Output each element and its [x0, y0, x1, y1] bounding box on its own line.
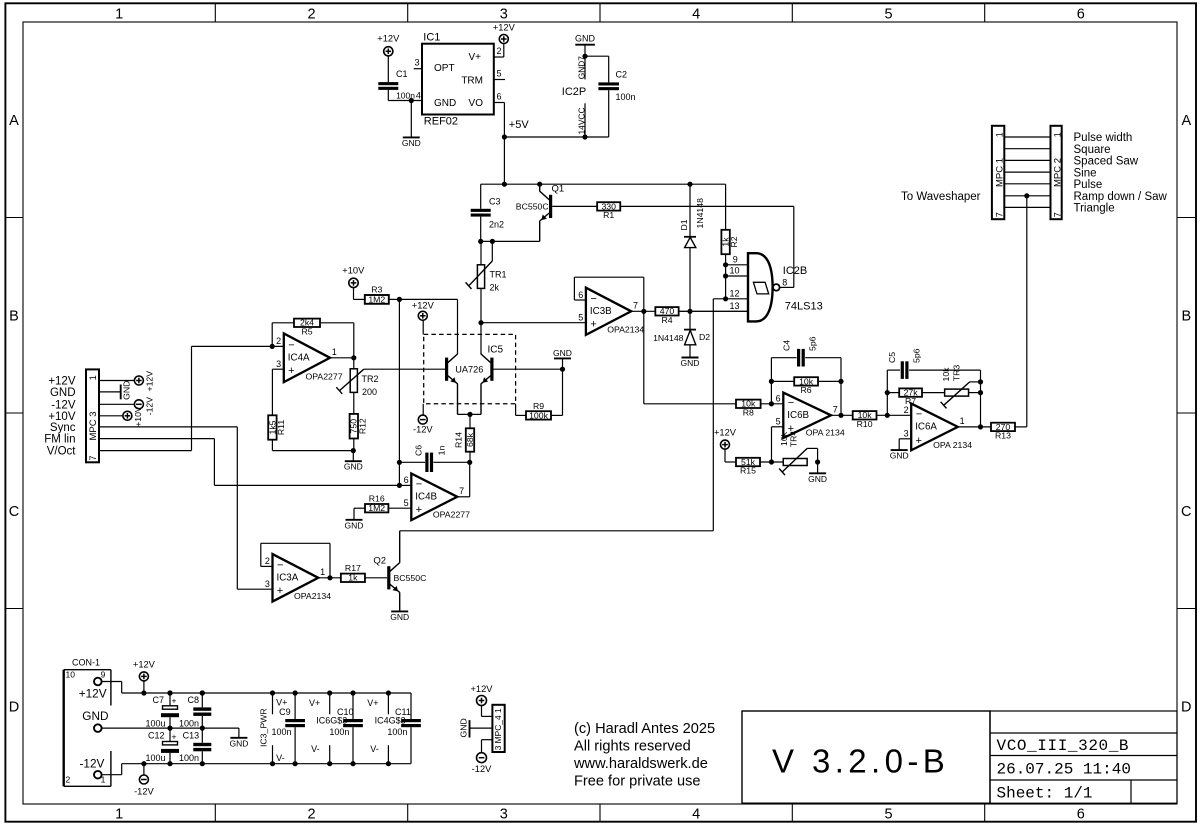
svg-text:−: −: [590, 293, 596, 305]
svg-text:1n: 1n: [437, 446, 447, 456]
svg-text:Sine: Sine: [1074, 167, 1097, 179]
svg-text:A: A: [1181, 113, 1191, 129]
svg-text:1k: 1k: [348, 573, 358, 583]
svg-text:To Waveshaper: To Waveshaper: [901, 191, 981, 203]
svg-text:C8: C8: [188, 695, 200, 705]
svg-text:R5: R5: [301, 326, 312, 336]
svg-text:Free for private use: Free for private use: [574, 774, 701, 790]
svg-text:IC4G$3: IC4G$3: [375, 716, 406, 726]
svg-text:OPA 2134: OPA 2134: [806, 428, 845, 438]
svg-text:1: 1: [1052, 132, 1062, 137]
svg-text:3: 3: [414, 58, 419, 68]
svg-text:R10: R10: [857, 419, 873, 429]
svg-text:C12: C12: [148, 731, 165, 741]
svg-text:OPA2277: OPA2277: [306, 372, 343, 382]
svg-text:10: 10: [729, 266, 739, 276]
svg-text:+12V: +12V: [493, 23, 516, 33]
svg-text:1: 1: [115, 6, 123, 22]
svg-text:C: C: [1181, 504, 1191, 520]
svg-text:UA726: UA726: [455, 365, 483, 375]
svg-text:−: −: [916, 408, 922, 420]
svg-text:C13: C13: [183, 731, 200, 741]
svg-text:C3: C3: [489, 197, 501, 207]
svg-text:14VCC: 14VCC: [576, 108, 586, 135]
svg-text:1N4148: 1N4148: [653, 333, 684, 343]
svg-text:R17: R17: [345, 563, 361, 573]
svg-text:V+: V+: [468, 52, 481, 63]
svg-text:V+: V+: [309, 698, 320, 708]
svg-text:1: 1: [115, 807, 123, 823]
svg-text:V+: V+: [276, 697, 287, 707]
svg-text:Q2: Q2: [373, 556, 386, 567]
svg-text:-12V: -12V: [51, 399, 76, 411]
svg-text:-12V: -12V: [413, 424, 433, 434]
svg-text:BC550C: BC550C: [394, 573, 427, 583]
svg-text:1M2: 1M2: [368, 503, 385, 513]
svg-text:OPA2134: OPA2134: [607, 324, 644, 334]
svg-text:−: −: [277, 559, 283, 571]
svg-text:200: 200: [362, 387, 377, 397]
svg-text:R8: R8: [743, 407, 754, 417]
svg-text:-12V: -12V: [80, 756, 105, 770]
svg-text:74LS13: 74LS13: [785, 301, 823, 313]
svg-text:+12V: +12V: [48, 376, 76, 388]
svg-text:+12V: +12V: [133, 659, 156, 669]
svg-text:13: 13: [729, 301, 739, 311]
svg-text:TR1: TR1: [490, 270, 507, 280]
svg-text:IC4A: IC4A: [288, 353, 310, 364]
svg-text:−: −: [288, 339, 294, 351]
svg-text:OPA 2134: OPA 2134: [933, 440, 972, 450]
svg-text:+: +: [172, 731, 177, 741]
svg-text:GND: GND: [344, 462, 363, 472]
svg-text:100n: 100n: [616, 92, 636, 102]
svg-text:TR3: TR3: [952, 365, 962, 382]
svg-text:C7: C7: [153, 695, 165, 705]
svg-text:8: 8: [782, 278, 787, 288]
svg-text:MPC 2: MPC 2: [1052, 158, 1063, 187]
svg-text:Sync: Sync: [50, 422, 76, 434]
svg-text:GND: GND: [575, 33, 596, 43]
svg-text:Ramp down / Saw: Ramp down / Saw: [1074, 191, 1168, 203]
svg-text:Spaced Saw: Spaced Saw: [1074, 156, 1139, 168]
svg-text:+12V: +12V: [79, 686, 107, 700]
svg-text:2: 2: [307, 6, 315, 22]
svg-text:+12V: +12V: [471, 684, 494, 694]
svg-text:V-: V-: [370, 744, 379, 754]
svg-text:BC550C: BC550C: [516, 201, 549, 211]
svg-text:C: C: [9, 504, 19, 520]
svg-text:-12V: -12V: [472, 764, 492, 774]
svg-text:26.07.25 11:40: 26.07.25 11:40: [997, 761, 1131, 779]
svg-text:IC4B: IC4B: [415, 492, 437, 503]
svg-text:R4: R4: [661, 315, 672, 325]
svg-text:5p6: 5p6: [912, 348, 922, 363]
svg-text:Pulse width: Pulse width: [1074, 132, 1133, 144]
svg-text:7: 7: [994, 212, 1004, 217]
svg-text:GND: GND: [50, 387, 76, 399]
svg-text:+12V: +12V: [412, 301, 435, 311]
svg-text:R14: R14: [453, 432, 463, 448]
svg-text:IC2B: IC2B: [783, 265, 807, 277]
svg-text:TR2: TR2: [362, 374, 379, 384]
svg-text:R2: R2: [729, 236, 739, 247]
svg-text:IC6A: IC6A: [915, 422, 937, 433]
svg-text:+: +: [277, 585, 283, 597]
svg-text:C6: C6: [414, 445, 424, 456]
svg-text:5: 5: [884, 6, 892, 22]
svg-text:IC3_PWR: IC3_PWR: [259, 708, 269, 747]
svg-text:100n: 100n: [272, 727, 292, 737]
svg-text:GND: GND: [681, 358, 700, 368]
svg-text:D2: D2: [699, 332, 710, 342]
svg-text:R16: R16: [369, 494, 385, 504]
svg-text:9: 9: [733, 255, 738, 265]
svg-text:IC3A: IC3A: [277, 573, 299, 584]
svg-text:4: 4: [416, 91, 421, 101]
svg-text:1: 1: [960, 416, 965, 426]
svg-text:FM lin: FM lin: [44, 434, 75, 446]
svg-text:4: 4: [692, 6, 700, 22]
svg-text:7: 7: [633, 301, 638, 311]
svg-text:-12V: -12V: [145, 397, 155, 416]
svg-text:1: 1: [332, 347, 337, 357]
svg-text:6: 6: [578, 290, 583, 300]
svg-text:Triangle: Triangle: [1074, 203, 1115, 215]
svg-text:B: B: [1181, 308, 1191, 324]
svg-text:OPA2277: OPA2277: [433, 510, 470, 520]
svg-text:GND: GND: [229, 738, 248, 748]
svg-text:GND: GND: [390, 612, 409, 622]
svg-text:-12V: -12V: [134, 786, 154, 796]
svg-text:+12V: +12V: [377, 33, 400, 43]
svg-text:All rights reserved: All rights reserved: [574, 739, 691, 755]
svg-text:MPC 3: MPC 3: [88, 411, 99, 440]
svg-text:100n: 100n: [179, 753, 199, 763]
svg-text:www.haraldswerk.de: www.haraldswerk.de: [573, 756, 708, 772]
svg-text:12: 12: [729, 288, 739, 298]
svg-text:+5V: +5V: [509, 119, 530, 131]
svg-text:+12V: +12V: [714, 427, 737, 437]
svg-text:R6: R6: [801, 385, 812, 395]
svg-text:+10V: +10V: [342, 265, 365, 275]
svg-text:GND: GND: [345, 520, 364, 530]
svg-text:7: 7: [833, 405, 838, 415]
svg-text:Pulse: Pulse: [1074, 179, 1103, 191]
svg-text:7: 7: [1052, 212, 1062, 217]
svg-text:10k: 10k: [779, 431, 789, 446]
svg-text:C2: C2: [616, 69, 628, 79]
svg-text:+: +: [172, 696, 177, 706]
svg-text:MPC 1: MPC 1: [994, 158, 1005, 187]
svg-text:2: 2: [66, 775, 71, 785]
svg-text:C11: C11: [395, 707, 411, 717]
svg-text:C5: C5: [887, 352, 897, 363]
svg-text:GND: GND: [553, 348, 572, 358]
svg-text:5p6: 5p6: [808, 336, 818, 351]
svg-text:5: 5: [884, 807, 892, 823]
svg-text:GND: GND: [459, 718, 469, 737]
svg-text:TRM: TRM: [461, 76, 483, 87]
svg-text:7: 7: [459, 486, 464, 496]
svg-text:+: +: [590, 319, 596, 331]
svg-text:3: 3: [904, 429, 909, 439]
svg-text:+: +: [916, 435, 922, 447]
svg-text:+12V: +12V: [145, 371, 155, 392]
svg-text:VCO_III_320_B: VCO_III_320_B: [997, 737, 1130, 755]
svg-text:IC3B: IC3B: [590, 306, 612, 317]
svg-text:6: 6: [1077, 807, 1085, 823]
svg-text:A: A: [9, 113, 19, 129]
svg-text:V/Oct: V/Oct: [47, 446, 77, 458]
svg-text:9: 9: [101, 669, 106, 679]
svg-text:1: 1: [994, 132, 1004, 137]
svg-text:1: 1: [88, 375, 98, 380]
svg-text:2n2: 2n2: [489, 220, 504, 230]
svg-text:B: B: [9, 308, 19, 324]
svg-text:6: 6: [497, 91, 502, 101]
svg-text:IC5: IC5: [488, 344, 504, 355]
svg-text:1N4148: 1N4148: [695, 198, 705, 229]
svg-text:R1: R1: [603, 210, 614, 220]
svg-text:REF02: REF02: [424, 115, 458, 127]
svg-text:GND: GND: [121, 381, 131, 400]
svg-text:5: 5: [497, 68, 502, 78]
svg-text:C1: C1: [396, 69, 408, 79]
svg-text:68k: 68k: [465, 432, 475, 447]
svg-text:100n: 100n: [179, 718, 199, 728]
svg-text:2k: 2k: [490, 282, 500, 292]
svg-text:(c) Haradl Antes 2025: (c) Haradl Antes 2025: [574, 721, 715, 737]
svg-text:10k: 10k: [941, 367, 951, 382]
svg-text:100u: 100u: [146, 718, 166, 728]
svg-text:3: 3: [500, 6, 508, 22]
svg-text:V 3.2.0-B: V 3.2.0-B: [772, 743, 949, 780]
svg-text:100u: 100u: [146, 753, 166, 763]
svg-text:−: −: [788, 397, 794, 409]
svg-text:GND: GND: [402, 138, 421, 148]
svg-text:5: 5: [578, 313, 583, 323]
svg-text:1M2: 1M2: [368, 294, 385, 304]
svg-text:V+: V+: [367, 698, 378, 708]
svg-text:R3: R3: [371, 285, 382, 295]
svg-text:2: 2: [265, 556, 270, 566]
svg-text:3: 3: [276, 359, 281, 369]
svg-text:C10: C10: [337, 707, 354, 717]
svg-text:100n: 100n: [387, 727, 407, 737]
svg-text:2: 2: [276, 336, 281, 346]
svg-text:GND: GND: [82, 709, 108, 723]
svg-text:VO: VO: [469, 98, 484, 109]
svg-text:−: −: [416, 478, 422, 490]
svg-text:100n: 100n: [329, 727, 349, 737]
svg-text:D: D: [1181, 699, 1191, 715]
svg-text:3: 3: [500, 807, 508, 823]
svg-text:GND7: GND7: [576, 56, 586, 80]
svg-text:OPT: OPT: [434, 63, 455, 74]
svg-text:1: 1: [320, 567, 325, 577]
svg-text:3: 3: [265, 579, 270, 589]
svg-text:5: 5: [404, 498, 409, 508]
svg-text:7: 7: [88, 455, 98, 460]
svg-text:2: 2: [307, 807, 315, 823]
svg-text:R12: R12: [357, 418, 367, 434]
svg-text:R9: R9: [533, 401, 544, 411]
svg-text:V-: V-: [311, 744, 320, 754]
svg-text:IC6B: IC6B: [787, 410, 809, 421]
svg-text:IC2P: IC2P: [562, 86, 586, 98]
svg-text:2: 2: [904, 405, 909, 415]
svg-text:R11: R11: [276, 420, 286, 435]
svg-text:3 MPC_4 1: 3 MPC_4 1: [493, 708, 503, 750]
svg-text:Q1: Q1: [552, 183, 565, 194]
svg-text:C4: C4: [782, 340, 792, 351]
svg-text:D: D: [9, 699, 19, 715]
svg-text:C9: C9: [279, 707, 291, 717]
svg-text:6: 6: [776, 394, 781, 404]
svg-text:6: 6: [1077, 6, 1085, 22]
svg-text:2: 2: [497, 46, 502, 56]
svg-text:5: 5: [776, 417, 781, 427]
svg-text:CON-1: CON-1: [72, 658, 100, 668]
svg-text:IC1: IC1: [423, 31, 440, 43]
svg-text:+10V: +10V: [133, 406, 143, 427]
svg-text:GND: GND: [890, 451, 909, 461]
svg-text:6: 6: [404, 475, 409, 485]
svg-text:R15: R15: [740, 466, 756, 476]
svg-text:10: 10: [66, 669, 76, 679]
svg-text:GND: GND: [808, 474, 827, 484]
svg-text:R13: R13: [995, 430, 1011, 440]
svg-text:D1: D1: [679, 219, 689, 230]
svg-text:TR4: TR4: [788, 431, 798, 448]
svg-text:V-: V-: [276, 753, 285, 763]
svg-text:Sheet: 1/1: Sheet: 1/1: [997, 785, 1093, 803]
svg-text:4: 4: [692, 807, 700, 823]
svg-text:OPA2134: OPA2134: [294, 591, 331, 601]
svg-text:100n: 100n: [396, 91, 415, 101]
svg-text:+: +: [288, 365, 294, 377]
svg-text:100k: 100k: [529, 410, 548, 420]
svg-text:Square: Square: [1074, 144, 1111, 156]
svg-text:IC6G$3: IC6G$3: [316, 716, 347, 726]
svg-text:GND: GND: [434, 98, 456, 109]
svg-text:+: +: [416, 504, 422, 516]
